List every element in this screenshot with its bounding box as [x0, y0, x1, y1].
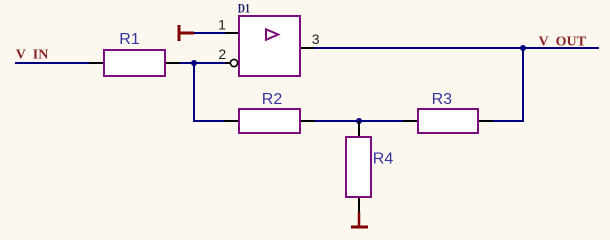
svg-text:R4: R4: [373, 151, 394, 168]
resistor R1: [89, 50, 180, 76]
junction node B: [356, 118, 362, 124]
resistor R4: [346, 121, 371, 213]
svg-text:V IN: V IN: [16, 48, 49, 63]
svg-text:2: 2: [218, 46, 226, 62]
wire: R2 pin2 to R3 pin1: [315, 120, 403, 122]
wire: D1 pin3 to V OUT: [314, 47, 599, 49]
power terminal (red stub) at D1 pin1: [178, 25, 194, 41]
svg-text:D1: D1: [238, 1, 250, 16]
resistor R2: [224, 109, 315, 133]
svg-text:V OUT: V OUT: [539, 35, 587, 50]
ground (red power bar): [351, 212, 368, 227]
svg-text:R3: R3: [432, 91, 453, 108]
resistor R3: [403, 109, 493, 133]
svg-text:1: 1: [218, 17, 226, 33]
wire: stub to D1 pin1: [194, 32, 226, 34]
svg-text:3: 3: [312, 31, 320, 47]
wire: R3 pin2 up to node OUT: [493, 48, 523, 121]
wire: R1 pin2 to D1 pin2: [180, 62, 226, 64]
junction node OUT: [520, 45, 526, 51]
wire: corner to R2 pin1: [193, 120, 225, 122]
svg-text:R1: R1: [119, 31, 140, 48]
wire: node A down to feedback row: [193, 63, 195, 121]
wire: V_IN to R1 pin1: [15, 62, 90, 64]
svg-text:R2: R2: [262, 91, 283, 108]
op-amp D1: [225, 16, 315, 76]
junction node A: [191, 60, 197, 66]
